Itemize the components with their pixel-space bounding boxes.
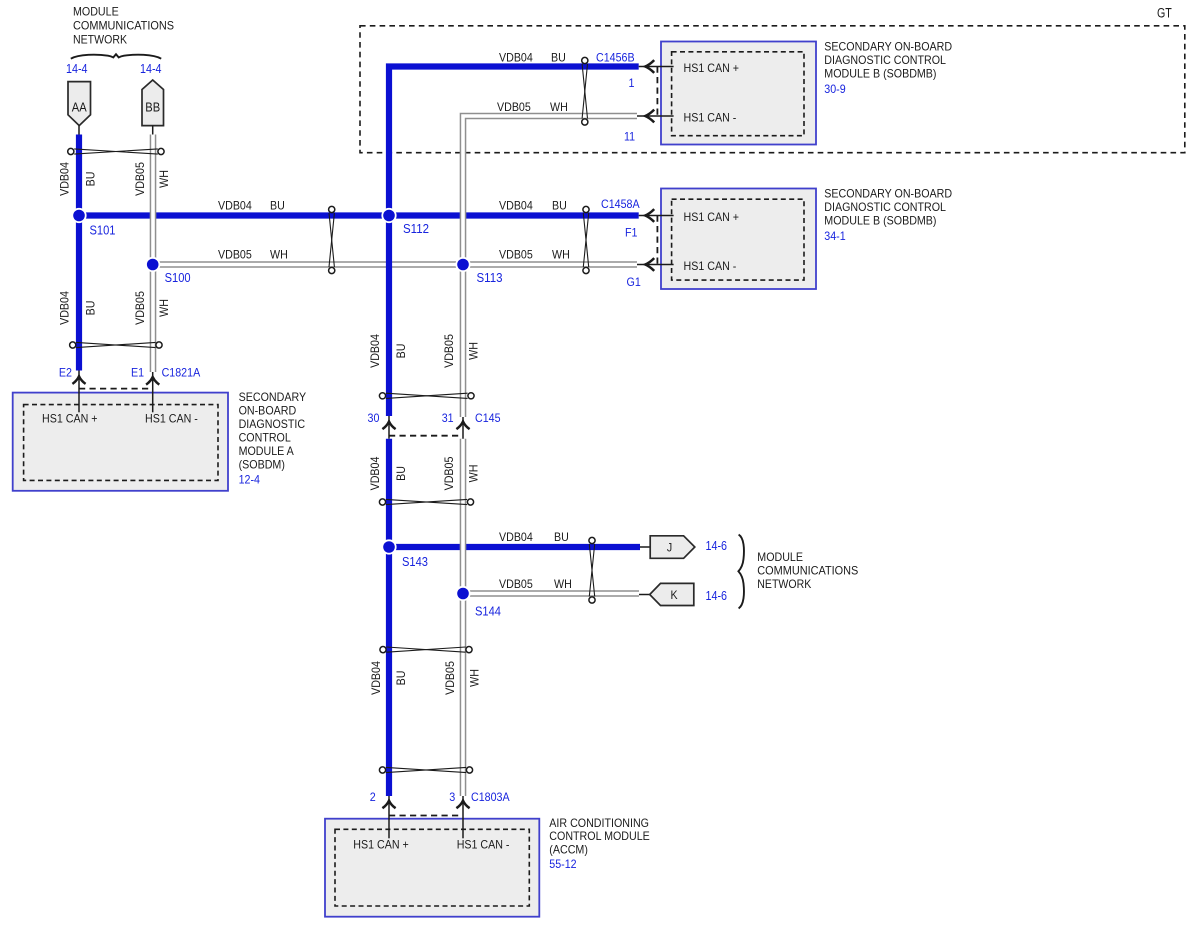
twisted pair symbol TP6 (above C145)	[379, 393, 474, 399]
twisted pair symbol TP5 (E2/E1 branch)	[70, 342, 162, 348]
svg-text:BU: BU	[84, 172, 98, 187]
module U4 label text	[549, 816, 650, 871]
wire VDB04 BU horizontal S101-S112-C1458A	[79, 212, 639, 218]
svg-text:(ACCM): (ACCM)	[549, 843, 588, 857]
svg-text:DIAGNOSTIC CONTROL: DIAGNOSTIC CONTROL	[824, 200, 946, 214]
svg-text:30-9: 30-9	[824, 82, 846, 96]
svg-text:E2: E2	[59, 366, 72, 380]
svg-text:30: 30	[368, 411, 380, 425]
svg-text:VDB04: VDB04	[499, 199, 533, 213]
svg-text:HS1 CAN -: HS1 CAN -	[684, 111, 737, 125]
svg-text:C1456B: C1456B	[596, 51, 635, 65]
svg-text:F1: F1	[625, 226, 638, 240]
connector C1803A pin 2 arrow	[382, 801, 395, 809]
svg-text:ON-BOARD: ON-BOARD	[239, 404, 297, 418]
svg-text:CONTROL: CONTROL	[239, 431, 291, 445]
svg-text:55-12: 55-12	[549, 857, 577, 871]
svg-text:VDB05: VDB05	[133, 162, 147, 196]
connector C145 pin 30 stub	[388, 416, 390, 439]
svg-text:DIAGNOSTIC: DIAGNOSTIC	[239, 417, 306, 431]
wire label VDB04 BU (S101-S112 row)	[218, 199, 285, 213]
svg-text:BU: BU	[394, 466, 408, 481]
svg-text:VDB04: VDB04	[369, 661, 383, 695]
svg-text:HS1 CAN -: HS1 CAN -	[145, 412, 198, 426]
svg-text:K: K	[670, 588, 677, 602]
svg-text:2: 2	[370, 790, 376, 804]
svg-text:C1458A: C1458A	[601, 197, 640, 211]
svg-text:S144: S144	[475, 604, 501, 619]
connector C1803A pin 2 stub	[388, 796, 390, 838]
wire label VDB04 BU vertical (S101-E2 segment)	[58, 291, 98, 325]
module U2 SECONDARY ON-BOARD DIAGNOSTIC CONTROL MODULE B (SOBDMB) 34-1 box	[661, 189, 816, 290]
connector C1821A pin E2 arrow	[72, 376, 85, 384]
brace (top left horizontal)	[71, 54, 161, 59]
wire label VDB05 WH (S100-S113 row)	[218, 248, 288, 262]
svg-text:WH: WH	[270, 248, 288, 262]
off-page connector J	[640, 536, 695, 559]
twisted pair symbol TP10 (above C1803A)	[379, 767, 472, 773]
svg-text:WH: WH	[552, 248, 570, 262]
svg-text:14-6: 14-6	[706, 589, 728, 603]
connector C145 pin 31 stub	[462, 417, 464, 439]
connector C1803A pin 3 stub	[462, 796, 464, 838]
svg-text:34-1: 34-1	[824, 229, 846, 243]
svg-text:S101: S101	[90, 223, 116, 238]
svg-text:S113: S113	[477, 270, 503, 285]
svg-text:BB: BB	[145, 101, 160, 115]
twisted pair symbol TP7 (below C145)	[379, 499, 473, 505]
svg-text:VDB05: VDB05	[499, 248, 533, 262]
splice S144	[455, 586, 470, 601]
splice S143	[381, 539, 396, 554]
wire label VDB05 WH (S113-C1458A row)	[499, 248, 570, 262]
off-page connector K	[639, 583, 694, 605]
wire label VDB05 WH vertical (S100-E1 segment)	[133, 291, 171, 325]
svg-text:C1821A: C1821A	[162, 366, 201, 380]
connector C1456B pin 11 stub	[637, 115, 674, 117]
twisted pair symbol TP2 (S101/S100 rows)	[329, 206, 335, 273]
module U4 AIR CONDITIONING CONTROL MODULE (ACCM) 55-12 box	[325, 819, 539, 917]
wire label VDB04 BU vertical (AA segment)	[58, 162, 98, 196]
svg-text:MODULE: MODULE	[73, 5, 119, 19]
title text MODULE COMMUNICATIONS NETWORK (top left)	[73, 5, 174, 47]
splice S101	[71, 208, 86, 223]
svg-text:14-6: 14-6	[706, 539, 728, 553]
wire VDB05 WH horizontal S100-S113-C1458A	[153, 261, 637, 268]
svg-text:VDB04: VDB04	[499, 51, 533, 65]
connector C1456B dashed line	[656, 67, 658, 117]
connector C1821A dashed line	[79, 388, 153, 390]
svg-text:WH: WH	[467, 342, 481, 360]
svg-text:HS1 CAN +: HS1 CAN +	[353, 838, 409, 852]
svg-text:BU: BU	[394, 671, 408, 686]
svg-text:BU: BU	[554, 530, 569, 544]
wire label VDB04 BU vertical (S112-C145 segment)	[368, 334, 408, 368]
wire label VDB04 BU (top row to C1456B)	[499, 51, 566, 65]
svg-text:11: 11	[624, 130, 635, 144]
svg-text:CONTROL MODULE: CONTROL MODULE	[549, 829, 650, 843]
wire label VDB04 BU vertical (S143-C1803A segment)	[369, 661, 408, 695]
svg-text:E1: E1	[131, 366, 144, 380]
title text MODULE COMMUNICATIONS NETWORK (right)	[757, 550, 858, 591]
svg-text:HS1 CAN +: HS1 CAN +	[42, 412, 98, 426]
wire label VDB05 WH vertical (BB segment)	[133, 162, 171, 196]
connector C1803A pin 3 arrow	[456, 801, 469, 809]
twisted pair symbol TP3 (C1456B rows)	[582, 57, 588, 125]
wire label VDB04 BU (S112-C1458A row)	[499, 199, 567, 213]
svg-text:C145: C145	[475, 411, 501, 425]
svg-text:MODULE: MODULE	[757, 550, 803, 564]
svg-text:WH: WH	[157, 170, 171, 188]
svg-text:VDB05: VDB05	[499, 577, 533, 591]
twisted pair symbol TP4 (C1458A rows)	[583, 206, 589, 273]
svg-text:BU: BU	[270, 199, 285, 213]
connector C1803A dashed line	[389, 815, 463, 817]
wire VDB05 WH main vertical C1456B-S113-C145	[463, 116, 637, 417]
splice S100	[145, 257, 160, 272]
svg-text:VDB05: VDB05	[218, 248, 252, 262]
svg-text:SECONDARY ON-BOARD: SECONDARY ON-BOARD	[824, 187, 952, 201]
wire VDB04 BU main vertical C145-S143-C1803A	[386, 439, 392, 796]
wire label VDB04 BU vertical (C145-S143 segment)	[368, 456, 408, 490]
svg-text:G1: G1	[627, 275, 642, 289]
svg-text:HS1 CAN +: HS1 CAN +	[684, 210, 740, 224]
svg-text:S100: S100	[165, 270, 191, 285]
svg-text:VDB05: VDB05	[442, 456, 456, 490]
svg-text:AA: AA	[72, 101, 87, 115]
svg-text:MODULE B (SOBDMB): MODULE B (SOBDMB)	[824, 214, 936, 228]
svg-text:S143: S143	[402, 554, 428, 569]
wire label VDB05 WH vertical (S144-C1803A segment)	[443, 661, 482, 695]
wire VDB04 BU main vertical C1456B-S112-C145	[389, 67, 639, 417]
svg-text:WH: WH	[157, 299, 171, 317]
svg-text:14-4: 14-4	[66, 62, 88, 76]
module U3 SECONDARY ON-BOARD DIAGNOSTIC CONTROL MODULE A (SOBDM) 12-4 box	[13, 393, 228, 491]
svg-text:C1803A: C1803A	[471, 790, 510, 804]
connector C145 dashed line	[389, 435, 463, 437]
connector C1456B pin 1 arrow	[645, 60, 654, 73]
svg-text:VDB05: VDB05	[443, 661, 457, 695]
svg-text:BU: BU	[551, 51, 566, 65]
svg-text:AIR CONDITIONING: AIR CONDITIONING	[549, 816, 649, 830]
twisted pair symbol TP9 (below S144)	[380, 647, 472, 653]
svg-text:12-4: 12-4	[239, 473, 261, 487]
svg-text:J: J	[667, 541, 672, 555]
wire VDB04 BU horizontal S143-J	[389, 544, 640, 550]
svg-text:14-4: 14-4	[140, 62, 162, 76]
svg-text:VDB04: VDB04	[368, 334, 382, 368]
wire label VDB04 BU (S143-J row)	[499, 530, 569, 544]
svg-text:VDB04: VDB04	[218, 199, 252, 213]
svg-text:SECONDARY: SECONDARY	[239, 390, 307, 404]
connector C1458A pin G1 stub	[637, 264, 674, 266]
svg-text:NETWORK: NETWORK	[757, 577, 811, 591]
module U2 label text	[824, 187, 952, 244]
brace (J/K vertical)	[738, 535, 744, 609]
connector C145 pin 31 arrow	[456, 422, 469, 430]
svg-text:VDB04: VDB04	[368, 456, 382, 490]
connector C145 pin 30 arrow	[382, 422, 395, 430]
svg-text:WH: WH	[554, 577, 572, 591]
wire VDB05 WH vertical BB-S100-E1	[150, 135, 157, 373]
svg-text:COMMUNICATIONS: COMMUNICATIONS	[73, 19, 174, 33]
svg-text:WH: WH	[467, 465, 481, 483]
svg-text:NETWORK: NETWORK	[73, 32, 127, 46]
svg-text:WH: WH	[468, 669, 482, 687]
svg-text:BU: BU	[394, 344, 408, 359]
splice S112	[381, 208, 396, 223]
twisted pair symbol TP8 (J/K rows)	[589, 537, 595, 603]
svg-text:COMMUNICATIONS: COMMUNICATIONS	[757, 563, 858, 577]
svg-text:SECONDARY ON-BOARD: SECONDARY ON-BOARD	[824, 40, 952, 54]
svg-text:MODULE A: MODULE A	[239, 444, 294, 458]
connector C1458A dashed line	[656, 216, 658, 265]
wire VDB05 WH main vertical C145-S144-C1803A	[460, 439, 467, 796]
svg-text:VDB04: VDB04	[499, 530, 533, 544]
svg-text:HS1 CAN -: HS1 CAN -	[684, 259, 737, 273]
connector C1456B pin 1 stub	[639, 66, 674, 68]
off-page connector BB	[142, 80, 164, 135]
svg-text:HS1 CAN -: HS1 CAN -	[457, 838, 510, 852]
connector C1456B pin 11 arrow	[645, 110, 654, 123]
svg-text:VDB05: VDB05	[133, 291, 147, 325]
wire label VDB05 WH (S144-K row)	[499, 577, 572, 591]
splice S113	[455, 257, 470, 272]
wire label VDB05 WH vertical (S113-C145 segment)	[442, 334, 481, 368]
twisted pair symbol TP1 (AA/BB)	[68, 148, 164, 154]
svg-text:1: 1	[629, 76, 635, 90]
svg-text:VDB04: VDB04	[58, 162, 72, 196]
svg-text:VDB04: VDB04	[58, 291, 72, 325]
harness boundary dashed box GT	[360, 26, 1185, 153]
module U1 label text	[824, 40, 952, 97]
connector C1821A pin E1 stub	[152, 372, 154, 412]
svg-text:VDB05: VDB05	[497, 100, 531, 114]
svg-text:MODULE B (SOBDMB): MODULE B (SOBDMB)	[824, 67, 936, 81]
connector C1821A pin E1 arrow	[146, 377, 159, 385]
wire label VDB05 WH (row to pin 11)	[497, 100, 568, 114]
svg-text:3: 3	[449, 790, 455, 804]
svg-text:GT: GT	[1157, 6, 1172, 21]
svg-text:DIAGNOSTIC CONTROL: DIAGNOSTIC CONTROL	[824, 53, 946, 67]
wire VDB04 BU vertical AA-S101-E2	[76, 135, 82, 371]
wire VDB05 WH horizontal S144-K	[463, 590, 639, 597]
svg-text:HS1 CAN +: HS1 CAN +	[684, 61, 740, 75]
connector C1458A pin G1 arrow	[645, 258, 654, 271]
svg-text:WH: WH	[550, 100, 568, 114]
connector C1821A pin E2 stub	[78, 371, 80, 413]
svg-text:BU: BU	[552, 199, 567, 213]
svg-text:BU: BU	[84, 301, 98, 316]
wire label VDB05 WH vertical (C145-S144 segment)	[442, 456, 481, 490]
module U3 label text	[239, 390, 307, 487]
svg-text:VDB05: VDB05	[442, 334, 456, 368]
svg-text:S112: S112	[403, 221, 429, 236]
module U1 SECONDARY ON-BOARD DIAGNOSTIC CONTROL MODULE B (SOBDMB) 30-9 box	[661, 42, 816, 145]
off-page connector AA	[68, 82, 91, 135]
connector C1458A pin F1 stub	[639, 215, 674, 217]
svg-text:31: 31	[442, 411, 454, 425]
connector C1458A pin F1 arrow	[645, 209, 654, 222]
svg-text:(SOBDM): (SOBDM)	[239, 458, 285, 472]
